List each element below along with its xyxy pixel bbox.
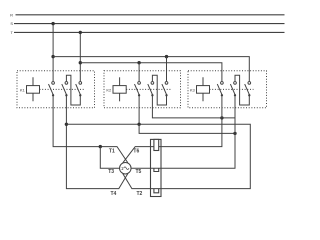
wire bus2 down to K2 contact A [138,63,140,82]
terminal clamp top [154,139,159,150]
K2 contact B [148,82,154,97]
wire bus1 down to K2 contact C [166,57,168,82]
node T1/T3 junction dot [99,145,102,148]
K1 hook wire contact2-top to contact3-bottom [66,75,80,105]
terminal clamp middle [154,168,159,171]
wire jog down to T5 riser [139,124,235,133]
contactor K2 dashed box [104,71,181,108]
motor 1M circle [120,162,132,174]
wire K2-contactB down and right [152,95,235,118]
phase line S [14,23,285,25]
K1 contact 1 [49,82,55,97]
node K2-contactA junction dot [137,123,140,126]
K3 linkage dashed line [210,88,254,90]
wire T-tap vertical down to K1 contact 3 [79,32,81,81]
svg-text:T5: T5 [136,169,142,175]
K3 hook wire contactB-top to contactC-bottom [235,75,249,105]
coil K2 [113,77,126,101]
wire interconnect to motor T2 [66,124,250,188]
svg-text:K1: K1 [20,87,26,92]
K2 contact C [162,82,168,97]
K3 contact B [230,82,236,97]
K2 contact A [135,82,141,97]
node bus1 tap to K2 dot [165,55,168,58]
K3 contact A [217,82,223,97]
K1 linkage dashed line [40,88,85,90]
svg-text:T6: T6 [133,148,139,154]
K1 contact 2 [62,82,68,97]
svg-text:T3: T3 [108,169,114,175]
coil K1 [27,77,40,101]
wire K3-contactB down and to motor T5 [131,95,235,168]
node jog end dot on T5 riser [233,132,236,135]
K2 linkage dashed line [126,88,170,90]
wire K3-contactA down and to motor T6 [123,95,222,163]
wire bus1 horizontal to K3 contact C [53,57,249,82]
svg-text:T: T [11,30,14,35]
K2 hook wire contactB-top to contactC-bottom [152,75,166,105]
svg-text:R: R [10,12,13,17]
node K3-contactA riser junction dot [220,116,223,119]
svg-text:T2: T2 [137,191,143,197]
wire T3 branch to motor left [100,147,119,169]
phase line T [14,31,285,33]
coil K3 [197,77,210,101]
terminal block body [151,139,162,196]
node bus1 start junction dot [51,55,54,58]
svg-text:S: S [10,21,13,26]
contactor K3 dashed box [188,71,267,108]
wire K2-contactA down [138,95,140,124]
K1 contact 3 [76,82,82,97]
svg-text:1: 1 [121,166,124,172]
node bus2 tap to K2 dot [137,61,140,64]
svg-text:T1: T1 [109,148,115,154]
terminal clamp bottom [154,189,159,193]
wire K1-contact2 down and to motor T4 [66,95,128,188]
node K1-contact2 interconnect dot [65,123,68,126]
node S-tap junction dot [51,22,54,25]
wire S-tap vertical down to K1 contact 1 [52,24,54,82]
node T-tap junction dot [79,31,82,34]
K3 contact C [245,82,251,97]
svg-text:T4: T4 [111,191,117,197]
node bus2 start junction dot [79,61,82,64]
svg-text:K2: K2 [106,87,112,92]
wire K1-contact1 down and to motor T1 [53,95,128,163]
svg-text:K3: K3 [190,87,196,92]
contactor K1 dashed box [17,71,95,108]
phase line R [16,14,285,16]
wire bus2 horizontal to K3 contact A [80,63,222,82]
